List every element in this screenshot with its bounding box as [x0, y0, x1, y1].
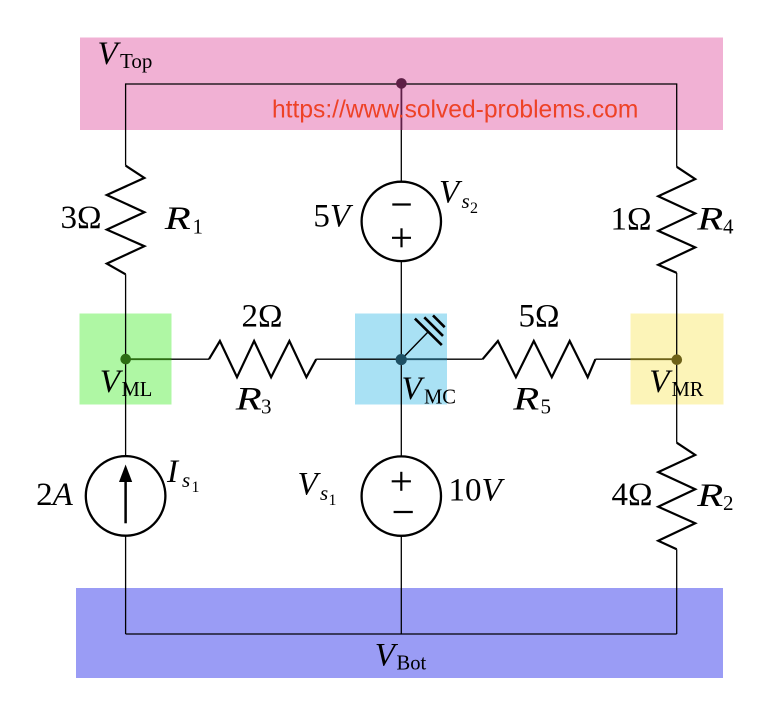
svg-text:MR: MR — [672, 379, 704, 401]
svg-text:Bot: Bot — [397, 653, 427, 675]
svg-text:1: 1 — [193, 215, 204, 239]
svg-text:4: 4 — [723, 215, 734, 239]
svg-text:R: R — [696, 478, 723, 514]
svg-text:5: 5 — [541, 395, 552, 419]
svg-text:2: 2 — [470, 200, 478, 217]
svg-text:s: s — [182, 468, 190, 492]
svg-text:R: R — [512, 382, 539, 418]
svg-text:5Ω: 5Ω — [518, 299, 559, 335]
svg-text:ML: ML — [122, 379, 153, 401]
svg-text:s: s — [320, 481, 328, 505]
svg-text:I: I — [166, 454, 180, 490]
svg-text:1Ω: 1Ω — [610, 202, 651, 238]
svg-text:2Ω: 2Ω — [241, 299, 282, 335]
svg-text:3Ω: 3Ω — [60, 200, 101, 236]
svg-text:4Ω: 4Ω — [611, 477, 652, 513]
svg-text:5V: 5V — [313, 198, 354, 234]
svg-text:MC: MC — [424, 387, 456, 409]
svg-text:3: 3 — [261, 395, 272, 419]
svg-text:Top: Top — [120, 49, 152, 73]
svg-text:1: 1 — [192, 479, 200, 496]
svg-text:https://www.solved-problems.co: https://www.solved-problems.com — [272, 96, 638, 123]
svg-text:R: R — [164, 201, 191, 237]
svg-text:R: R — [696, 202, 723, 238]
svg-text:s: s — [462, 189, 470, 213]
svg-text:2A: 2A — [36, 477, 74, 513]
svg-text:R: R — [235, 382, 262, 418]
svg-text:2: 2 — [723, 491, 734, 515]
svg-text:10V: 10V — [449, 473, 506, 509]
svg-text:1: 1 — [329, 492, 337, 509]
